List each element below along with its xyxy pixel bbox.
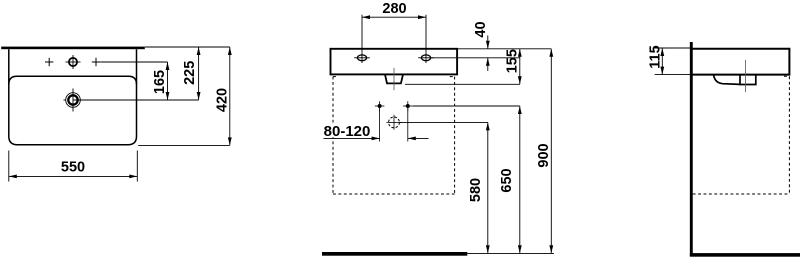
svg-text:225: 225 <box>182 61 198 85</box>
svg-text:580: 580 <box>468 178 484 202</box>
svg-text:650: 650 <box>499 168 515 192</box>
svg-text:900: 900 <box>536 143 552 167</box>
svg-text:80-120: 80-120 <box>324 123 371 140</box>
svg-text:155: 155 <box>505 49 521 73</box>
svg-text:550: 550 <box>61 160 85 176</box>
svg-text:40: 40 <box>473 21 489 37</box>
svg-text:115: 115 <box>648 45 664 68</box>
svg-text:420: 420 <box>215 88 231 112</box>
svg-text:165: 165 <box>152 70 168 94</box>
svg-text:280: 280 <box>382 1 406 17</box>
